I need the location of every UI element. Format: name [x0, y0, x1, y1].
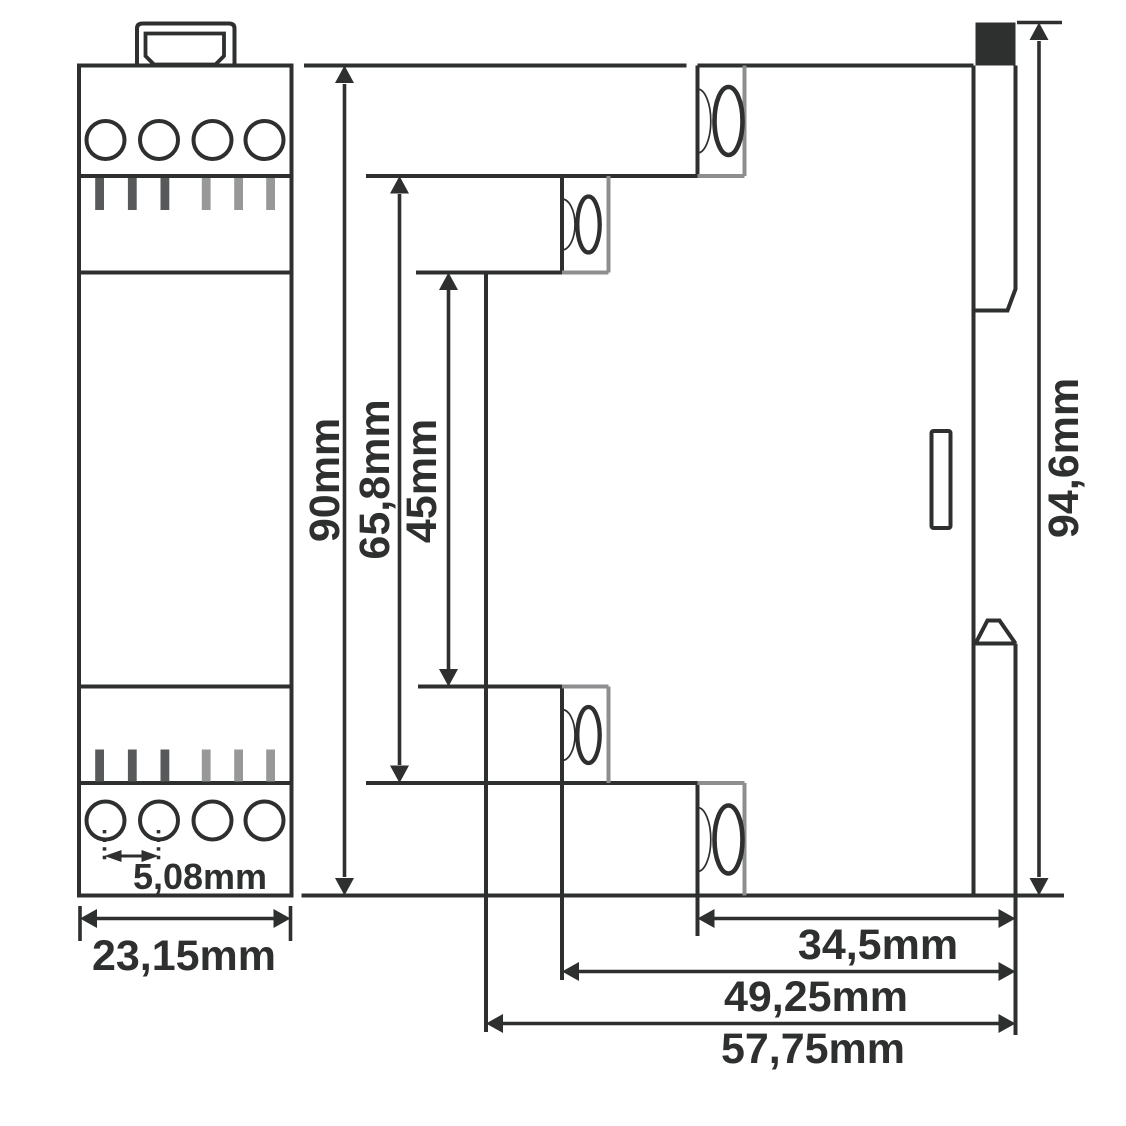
terminal screw circle top 4: [246, 121, 284, 159]
front view separator line lower-1: [79, 685, 292, 689]
side view step line y783: [366, 781, 698, 785]
side slot: [932, 431, 951, 528]
vent bars top light group: [202, 178, 275, 210]
dimension line 57,75mm: [486, 1014, 1016, 1033]
terminal screw circle bottom 4: [246, 802, 284, 840]
terminal screw circle top 1: [87, 121, 125, 159]
terminal screw circle bottom 2: [140, 802, 178, 840]
dimension line 34,5mm: [698, 909, 1016, 928]
front view: DIN clip handle outer: [137, 24, 235, 67]
front view separator line lower-2: [79, 781, 292, 785]
rail hook lower latch trapezoid: [976, 621, 1016, 644]
terminal block 2 ovals: [562, 197, 600, 253]
svg-text:94,6mm: 94,6mm: [1040, 378, 1088, 538]
dimension 90mm vertical: [335, 66, 354, 896]
vent bars bottom dark group: [95, 750, 169, 782]
side view bottom edge: [302, 894, 1065, 898]
front view separator line upper-2: [79, 271, 292, 275]
terminal block 4 gray edges: [698, 783, 745, 896]
terminal block 1 gray edges: [698, 66, 745, 177]
terminal screw circle bottom 3: [194, 802, 232, 840]
rail top black square: [976, 23, 1016, 66]
side view step line y686: [418, 685, 562, 689]
terminal block 3 ovals: [562, 707, 600, 763]
svg-text:23,15mm: 23,15mm: [92, 932, 276, 980]
dimension 45mm vertical: [439, 273, 458, 687]
vent bars bottom light group: [202, 750, 275, 782]
dimension line 23,15mm: [80, 909, 291, 928]
terminal block 2 gray edges: [562, 176, 609, 273]
terminal screw circle top 3: [194, 121, 232, 159]
terminal screw circle bottom 1: [87, 802, 125, 840]
svg-text:5,08mm: 5,08mm: [133, 856, 267, 897]
side view step line y272: [416, 271, 562, 275]
block3 front edge + extension 49,25: [560, 687, 564, 981]
svg-text:65,8mm: 65,8mm: [351, 399, 399, 559]
dimension 94,6mm tick top: [1017, 21, 1062, 25]
svg-text:34,5mm: 34,5mm: [798, 921, 958, 969]
extension line 23,15 right: [289, 906, 293, 941]
svg-text:90mm: 90mm: [301, 418, 349, 542]
side view back face: [972, 66, 976, 896]
dotted centerline circle b1: [103, 830, 107, 864]
terminal screw circle top 2: [140, 121, 178, 159]
rail hook lower strip right edge + extension: [1014, 644, 1018, 1036]
svg-text:45mm: 45mm: [398, 419, 446, 543]
side view top edge right segment: [698, 64, 974, 68]
block2 front edge: [560, 176, 564, 273]
block4 front edge + extension 34,5: [696, 783, 700, 936]
extension line 23,15 left: [78, 906, 82, 941]
svg-text:49,25mm: 49,25mm: [724, 973, 908, 1021]
terminal block 1 ovals: [698, 87, 743, 155]
front view body outline: [79, 66, 292, 896]
terminal block 3 gray edges: [562, 687, 609, 784]
dimension 94,6mm vertical: [1030, 23, 1049, 896]
dimension 65,8mm vertical: [390, 176, 409, 783]
side view step line y176: [366, 174, 698, 178]
side view top edge left segment: [304, 64, 687, 68]
block1 front edge: [696, 66, 700, 177]
rail hook upper strip: [976, 66, 1016, 311]
dimension arrow 5,08mm: [105, 850, 159, 862]
dotted centerline circle b2: [157, 830, 161, 864]
terminal block 4 ovals: [698, 806, 743, 874]
side view front face + extension 57,75: [484, 273, 488, 1033]
front view: DIN clip handle inner: [146, 34, 225, 65]
side view outline group: [302, 66, 1065, 1036]
dimension line 49,25mm: [562, 962, 1016, 981]
vent bars top dark group: [95, 178, 169, 210]
svg-text:57,75mm: 57,75mm: [721, 1025, 905, 1073]
rail hook lower strip top edge: [974, 642, 1016, 646]
front view separator line upper-1: [79, 174, 292, 178]
